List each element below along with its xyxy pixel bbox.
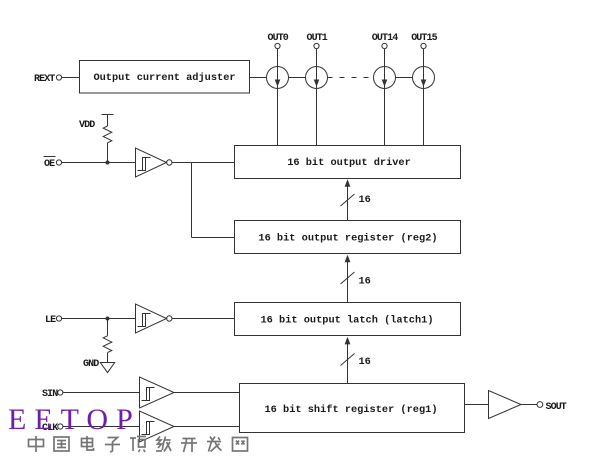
node OUT1 label [307,33,328,44]
wire OE to U1 [62,162,136,164]
svg-text:EETOP: EETOP [8,403,141,436]
block 16 bit output driver [235,146,461,179]
terminal SIN [58,390,63,395]
wire OUT0 [277,49,279,146]
glyph fa [207,437,222,452]
glyph guo [54,437,69,451]
current source I1 [267,67,289,89]
glyph zhong [29,436,44,452]
schmitt inverter U2 [136,304,167,333]
svg-text:Output current adjuster: Output current adjuster [93,72,235,84]
wire I1 to I2 [289,77,306,79]
node REXT label [34,74,55,85]
glyph ji [156,437,171,452]
glyph wang [233,438,248,452]
terminal OUT1 [314,43,319,48]
node VDD label [79,120,95,131]
power VDD rail [102,114,114,116]
wire U2 to latch1 [172,318,235,320]
wire U1 branch down [191,163,193,238]
block 16 bit output latch (latch1) [235,303,461,336]
svg-text:LE: LE [45,315,56,326]
junction OE/R1 [106,161,110,165]
wire dashed I2 to I15 [328,77,374,79]
node SIN label [42,389,58,400]
wire OUT15 [423,49,425,146]
terminal CLK [58,424,63,429]
terminal OUT15 [421,43,426,48]
block 16 bit output register (reg2) [235,221,461,254]
buffer U5 [489,391,522,419]
wire LE to U2 [62,318,136,320]
schmitt buffer U3 [140,377,175,408]
svg-text:SOUT: SOUT [546,402,567,413]
svg-text:SIN: SIN [42,389,58,400]
svg-text:OUT1: OUT1 [307,33,328,44]
block 16 bit shift register (reg1) [240,384,465,433]
glyph dian [82,436,94,450]
svg-text:16: 16 [359,194,371,206]
wire U3 to reg1 [174,392,240,394]
terminal SOUT [537,402,543,408]
wire SIN to U3 [63,392,140,394]
node OUT0 label [268,33,289,44]
wire OUT1 [316,49,318,146]
node GND label [83,359,99,370]
schmitt inverter U1 [136,148,167,177]
svg-text:16: 16 [359,276,371,288]
glyph kai [181,439,197,453]
svg-text:16 bit output latch (latch1): 16 bit output latch (latch1) [260,315,433,327]
wire I15 to I16 [396,77,413,79]
resistor R2 [103,336,112,353]
terminal OUT0 [275,43,280,48]
bus arrow reg1 to latch1 [347,343,349,383]
terminal LE [56,316,61,321]
wire LE to R2 [107,319,109,336]
wire R2 to ground [107,353,109,363]
terminal REXT [56,75,61,80]
wire U5 to SOUT [521,404,537,406]
glyph ding [130,437,146,453]
wire U4 to reg1 [174,426,240,428]
wire OUT14 [384,49,386,146]
current source I15 [374,67,396,89]
ground [100,363,114,373]
wire R1 to OE net [107,143,109,163]
glyph zi [105,438,120,452]
wire CLK to U4 [63,426,140,428]
node SOUT label [546,402,567,413]
wire adjuster to I1 [250,77,267,79]
node OE label [44,159,55,170]
wire reg1 to U5 [465,404,489,406]
svg-text:OUT14: OUT14 [372,33,398,44]
svg-text:16: 16 [359,356,371,368]
current source I2 [306,67,328,89]
watermark chinese caption [29,436,248,452]
svg-text:VDD: VDD [79,120,95,131]
node OUT15 label [411,33,437,44]
node OUT14 label [372,33,398,44]
block Output current adjuster [80,61,250,94]
terminal OUT14 [382,43,387,48]
svg-text:16 bit output driver: 16 bit output driver [287,157,411,169]
current source I16 [413,67,435,89]
node CLK label [42,423,58,434]
wire U1 to driver [172,162,235,164]
bus arrow reg2 to driver [347,186,349,221]
bus arrow latch1 to reg2 [347,261,349,302]
svg-text:REXT: REXT [34,74,55,85]
wire branch to reg2 [192,237,235,239]
svg-text:OE: OE [44,159,55,170]
schmitt buffer U4 [140,411,175,442]
wire REXT to adjuster [62,77,80,79]
node LE label [45,315,56,326]
svg-text:16 bit output register (reg2): 16 bit output register (reg2) [258,233,437,245]
svg-text:OUT0: OUT0 [268,33,289,44]
junction LE/R2 [106,317,110,321]
svg-text:OUT15: OUT15 [411,33,437,44]
terminal OE [56,160,61,165]
resistor R1 [103,126,112,143]
svg-text:16 bit shift register (reg1): 16 bit shift register (reg1) [264,404,437,416]
svg-text:GND: GND [83,359,99,370]
